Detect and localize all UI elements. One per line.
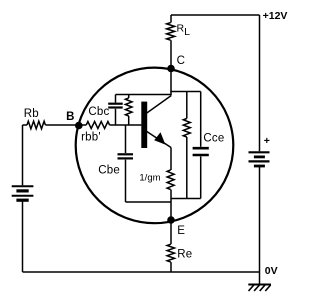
wire: left rail lower (battery bottom to bottom rail): [22, 201, 24, 272]
transistor Q1 collector lead: [147, 96, 172, 114]
svg-text:Cbe: Cbe: [98, 165, 120, 177]
wire: rbc resistor top lead: [128, 95, 130, 99]
wire: bottom rail: [23, 271, 260, 273]
resistor Re: [167, 244, 174, 262]
transistor Q1 emitter arrowhead: [154, 132, 165, 144]
wire: rbb' to transistor base (B' wire): [110, 124, 142, 126]
wire: node B to rbb' left lead: [79, 124, 86, 126]
svg-text:+12V: +12V: [263, 10, 288, 22]
svg-text:+: +: [264, 135, 270, 147]
wire: rbc resistor bottom lead to B' wire: [128, 116, 130, 125]
node E: [167, 216, 175, 224]
svg-text:Cce: Cce: [203, 133, 224, 145]
wire: RL bottom lead to node C: [170, 40, 172, 68]
wire: 1/gm to node E: [170, 190, 172, 221]
svg-text:Rb: Rb: [24, 108, 39, 120]
battery V2 (right, +12V supply): [249, 152, 270, 166]
wire: left rail upper (Rb corner to battery top): [22, 125, 24, 185]
svg-text:rbb': rbb': [81, 131, 101, 143]
wire: emitter vertical (transistor emitter to 1/gm): [170, 148, 172, 171]
wire: Cbe bottom horizontal to emitter line: [126, 201, 172, 203]
transistor Q1 (npn, base bar): [141, 96, 171, 149]
wire: Rb right lead to node B: [45, 124, 78, 126]
resistor 1/gm: [167, 170, 174, 190]
wire: Cbe branch lower lead: [125, 160, 127, 202]
wire: node E to Re top: [170, 220, 172, 244]
transistor Q1 emitter lead: [147, 132, 171, 148]
svg-text:Cbc: Cbc: [88, 106, 109, 118]
wire: right rail upper (from +12V down to battery top): [259, 15, 261, 151]
capacitor Cce: [193, 148, 209, 155]
capacitor Cbe: [118, 154, 134, 158]
wire: RL top lead: [170, 15, 172, 23]
resistor RL: [167, 23, 175, 41]
wire: Cbc branch lower lead to B' wire: [115, 109, 117, 125]
resistor Rb: [27, 121, 45, 129]
wire: Re bottom lead to bottom rail: [170, 262, 172, 272]
wire: Cce branch upper lead: [200, 92, 202, 147]
wire: Rb left lead: [23, 124, 28, 126]
wire: collector top-left horizontal: [116, 94, 172, 96]
node C: [167, 65, 175, 73]
resistor rce (unlabeled, between C and E): [183, 119, 190, 138]
wire: collector top-right horizontal: [170, 91, 200, 93]
svg-text:B: B: [66, 111, 75, 123]
capacitor Cbc: [108, 104, 123, 108]
wire: Cce branch lower lead: [200, 156, 202, 198]
wire: Cbc branch upper lead: [115, 95, 117, 103]
svg-text:C: C: [177, 55, 186, 67]
wire: right rail lower (battery bottom to bottom rail): [259, 167, 261, 272]
wire: Cbe branch upper lead: [125, 125, 127, 153]
wire: emitter bottom-right horizontal: [171, 198, 201, 200]
ground (earth, bottom right): [248, 285, 271, 292]
wire: node C down to collector junction: [170, 69, 172, 95]
hybrid-pi model circle: [76, 68, 234, 224]
wire: ground stub: [259, 272, 261, 285]
wire: rce resistor bottom lead: [186, 137, 188, 199]
battery V1 (left): [12, 186, 34, 200]
wire: rce resistor top lead: [186, 92, 188, 119]
svg-text:RL: RL: [177, 23, 191, 38]
svg-text:1/gm: 1/gm: [139, 173, 160, 184]
svg-text:0V: 0V: [265, 265, 278, 277]
node B: [75, 122, 83, 130]
resistor rbc (unlabeled, between B' and C): [125, 98, 132, 116]
wire: top rail from RL top to +12V rail: [171, 14, 260, 16]
resistor rbb': [86, 122, 109, 129]
svg-text:E: E: [177, 225, 185, 237]
svg-text:Re: Re: [177, 249, 192, 261]
